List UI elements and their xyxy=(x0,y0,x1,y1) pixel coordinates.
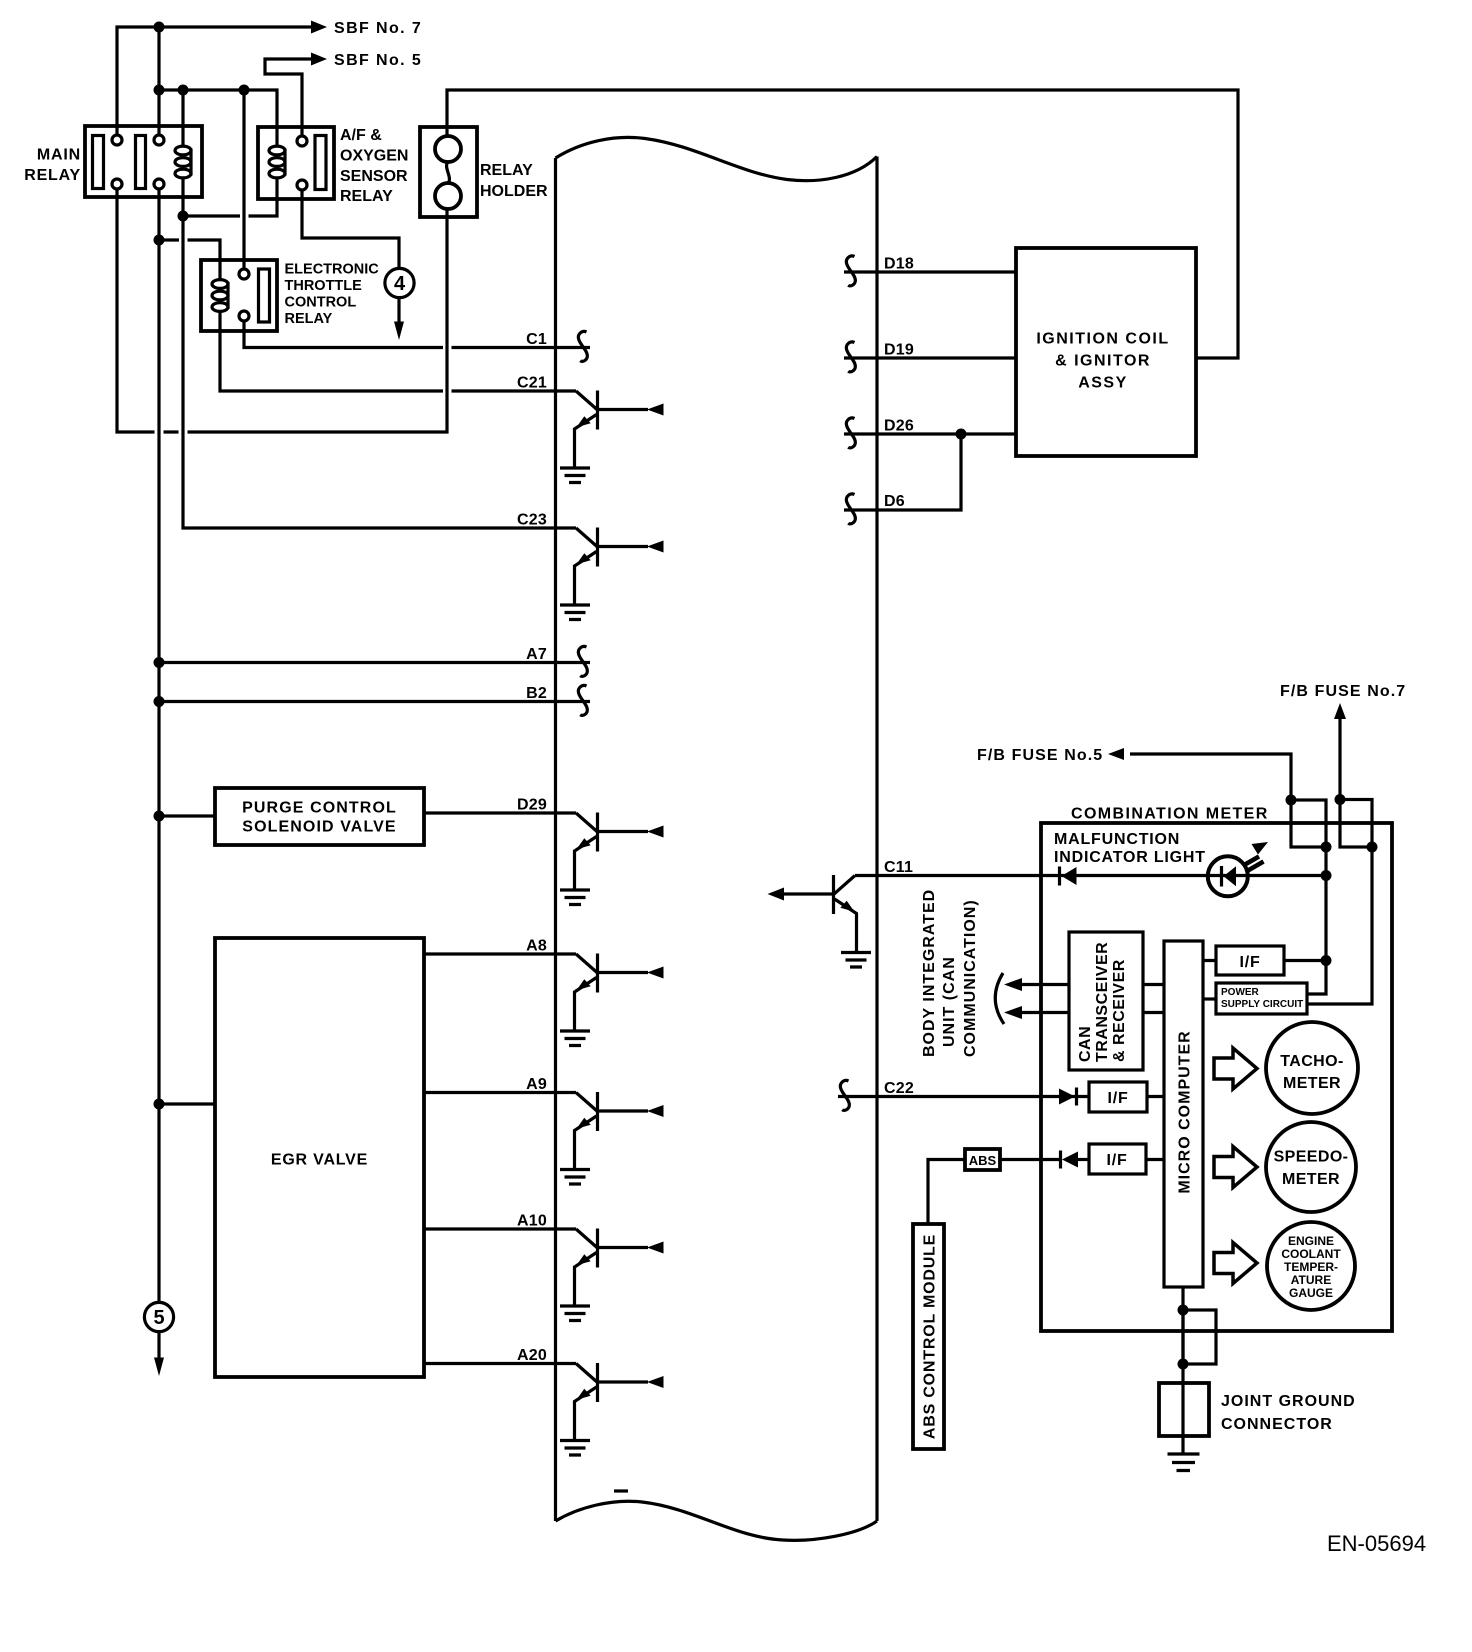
svg-text:C1: C1 xyxy=(526,331,547,348)
svg-text:D18: D18 xyxy=(884,256,914,273)
svg-text:TACHO-: TACHO- xyxy=(1280,1053,1343,1070)
svg-text:D6: D6 xyxy=(884,493,905,510)
svg-text:SBF No. 7: SBF No. 7 xyxy=(334,20,422,37)
svg-text:ABS CONTROL MODULE: ABS CONTROL MODULE xyxy=(922,1234,939,1439)
svg-text:INDICATOR LIGHT: INDICATOR LIGHT xyxy=(1054,849,1206,866)
svg-text:ENGINE: ENGINE xyxy=(1288,1234,1334,1248)
svg-text:COMBINATION METER: COMBINATION METER xyxy=(1071,806,1269,823)
svg-text:MALFUNCTION: MALFUNCTION xyxy=(1054,831,1180,848)
svg-text:PURGE CONTROL: PURGE CONTROL xyxy=(242,800,397,817)
svg-text:D19: D19 xyxy=(884,342,914,359)
svg-text:C22: C22 xyxy=(884,1080,914,1097)
svg-text:CONNECTOR: CONNECTOR xyxy=(1221,1416,1333,1433)
svg-text:POWER: POWER xyxy=(1221,987,1260,998)
svg-text:SPEEDO-: SPEEDO- xyxy=(1274,1149,1349,1166)
svg-text:ELECTRONIC: ELECTRONIC xyxy=(285,262,380,278)
svg-text:D29: D29 xyxy=(517,797,547,814)
svg-text:MICRO COMPUTER: MICRO COMPUTER xyxy=(1177,1030,1194,1193)
svg-text:SBF No. 5: SBF No. 5 xyxy=(334,52,422,69)
svg-text:F/B FUSE No.7: F/B FUSE No.7 xyxy=(1280,683,1406,700)
svg-text:D26: D26 xyxy=(884,418,914,435)
svg-text:COMMUNICATION): COMMUNICATION) xyxy=(962,899,979,1057)
svg-text:SENSOR: SENSOR xyxy=(340,168,408,185)
svg-text:GAUGE: GAUGE xyxy=(1289,1286,1333,1300)
svg-text:SOLENOID VALVE: SOLENOID VALVE xyxy=(242,819,396,836)
svg-text:I/F: I/F xyxy=(1106,1152,1127,1169)
svg-text:OXYGEN: OXYGEN xyxy=(340,148,408,165)
svg-text:CONTROL: CONTROL xyxy=(285,295,357,311)
svg-text:THROTTLE: THROTTLE xyxy=(285,278,363,294)
svg-text:I/F: I/F xyxy=(1107,1090,1128,1107)
svg-text:CAN: CAN xyxy=(1077,1026,1094,1062)
svg-text:RELAY: RELAY xyxy=(285,311,333,327)
svg-text:TRANSCEIVER: TRANSCEIVER xyxy=(1094,942,1111,1062)
svg-text:A9: A9 xyxy=(526,1076,547,1093)
svg-text:5: 5 xyxy=(153,1307,164,1329)
svg-text:IGNITION COIL: IGNITION COIL xyxy=(1036,331,1169,348)
svg-text:METER: METER xyxy=(1283,1075,1341,1092)
svg-text:EGR VALVE: EGR VALVE xyxy=(271,1152,368,1169)
svg-text:ATURE: ATURE xyxy=(1291,1273,1331,1287)
svg-text:TEMPER-: TEMPER- xyxy=(1284,1260,1338,1274)
svg-text:COOLANT: COOLANT xyxy=(1281,1247,1341,1261)
svg-text:RELAY: RELAY xyxy=(480,162,533,179)
svg-text:A20: A20 xyxy=(517,1347,547,1364)
svg-text:ABS: ABS xyxy=(969,1153,997,1168)
svg-text:METER: METER xyxy=(1282,1171,1340,1188)
svg-text:JOINT GROUND: JOINT GROUND xyxy=(1221,1393,1356,1410)
svg-text:SUPPLY CIRCUIT: SUPPLY CIRCUIT xyxy=(1221,999,1303,1010)
svg-text:RELAY: RELAY xyxy=(340,188,393,205)
svg-text:A10: A10 xyxy=(517,1213,547,1230)
svg-text:A8: A8 xyxy=(526,938,547,955)
svg-text:I/F: I/F xyxy=(1239,954,1260,971)
svg-text:F/B FUSE No.5: F/B FUSE No.5 xyxy=(977,747,1103,764)
svg-text:ASSY: ASSY xyxy=(1078,375,1128,392)
svg-text:4: 4 xyxy=(394,273,406,295)
svg-text:A7: A7 xyxy=(526,646,547,663)
svg-text:MAIN: MAIN xyxy=(37,147,81,164)
svg-text:EN-05694: EN-05694 xyxy=(1327,1531,1426,1556)
svg-text:C11: C11 xyxy=(884,859,913,876)
svg-text:C21: C21 xyxy=(517,375,547,392)
svg-text:& IGNITOR: & IGNITOR xyxy=(1055,353,1151,370)
svg-text:RELAY: RELAY xyxy=(24,167,81,184)
svg-text:B2: B2 xyxy=(526,685,547,702)
svg-text:A/F &: A/F & xyxy=(340,127,382,144)
svg-text:BODY INTEGRATED: BODY INTEGRATED xyxy=(921,889,938,1057)
svg-text:UNIT (CAN: UNIT (CAN xyxy=(941,956,958,1047)
svg-text:C23: C23 xyxy=(517,512,547,529)
svg-text:HOLDER: HOLDER xyxy=(480,183,548,200)
svg-text:& RECEIVER: & RECEIVER xyxy=(1111,959,1128,1062)
